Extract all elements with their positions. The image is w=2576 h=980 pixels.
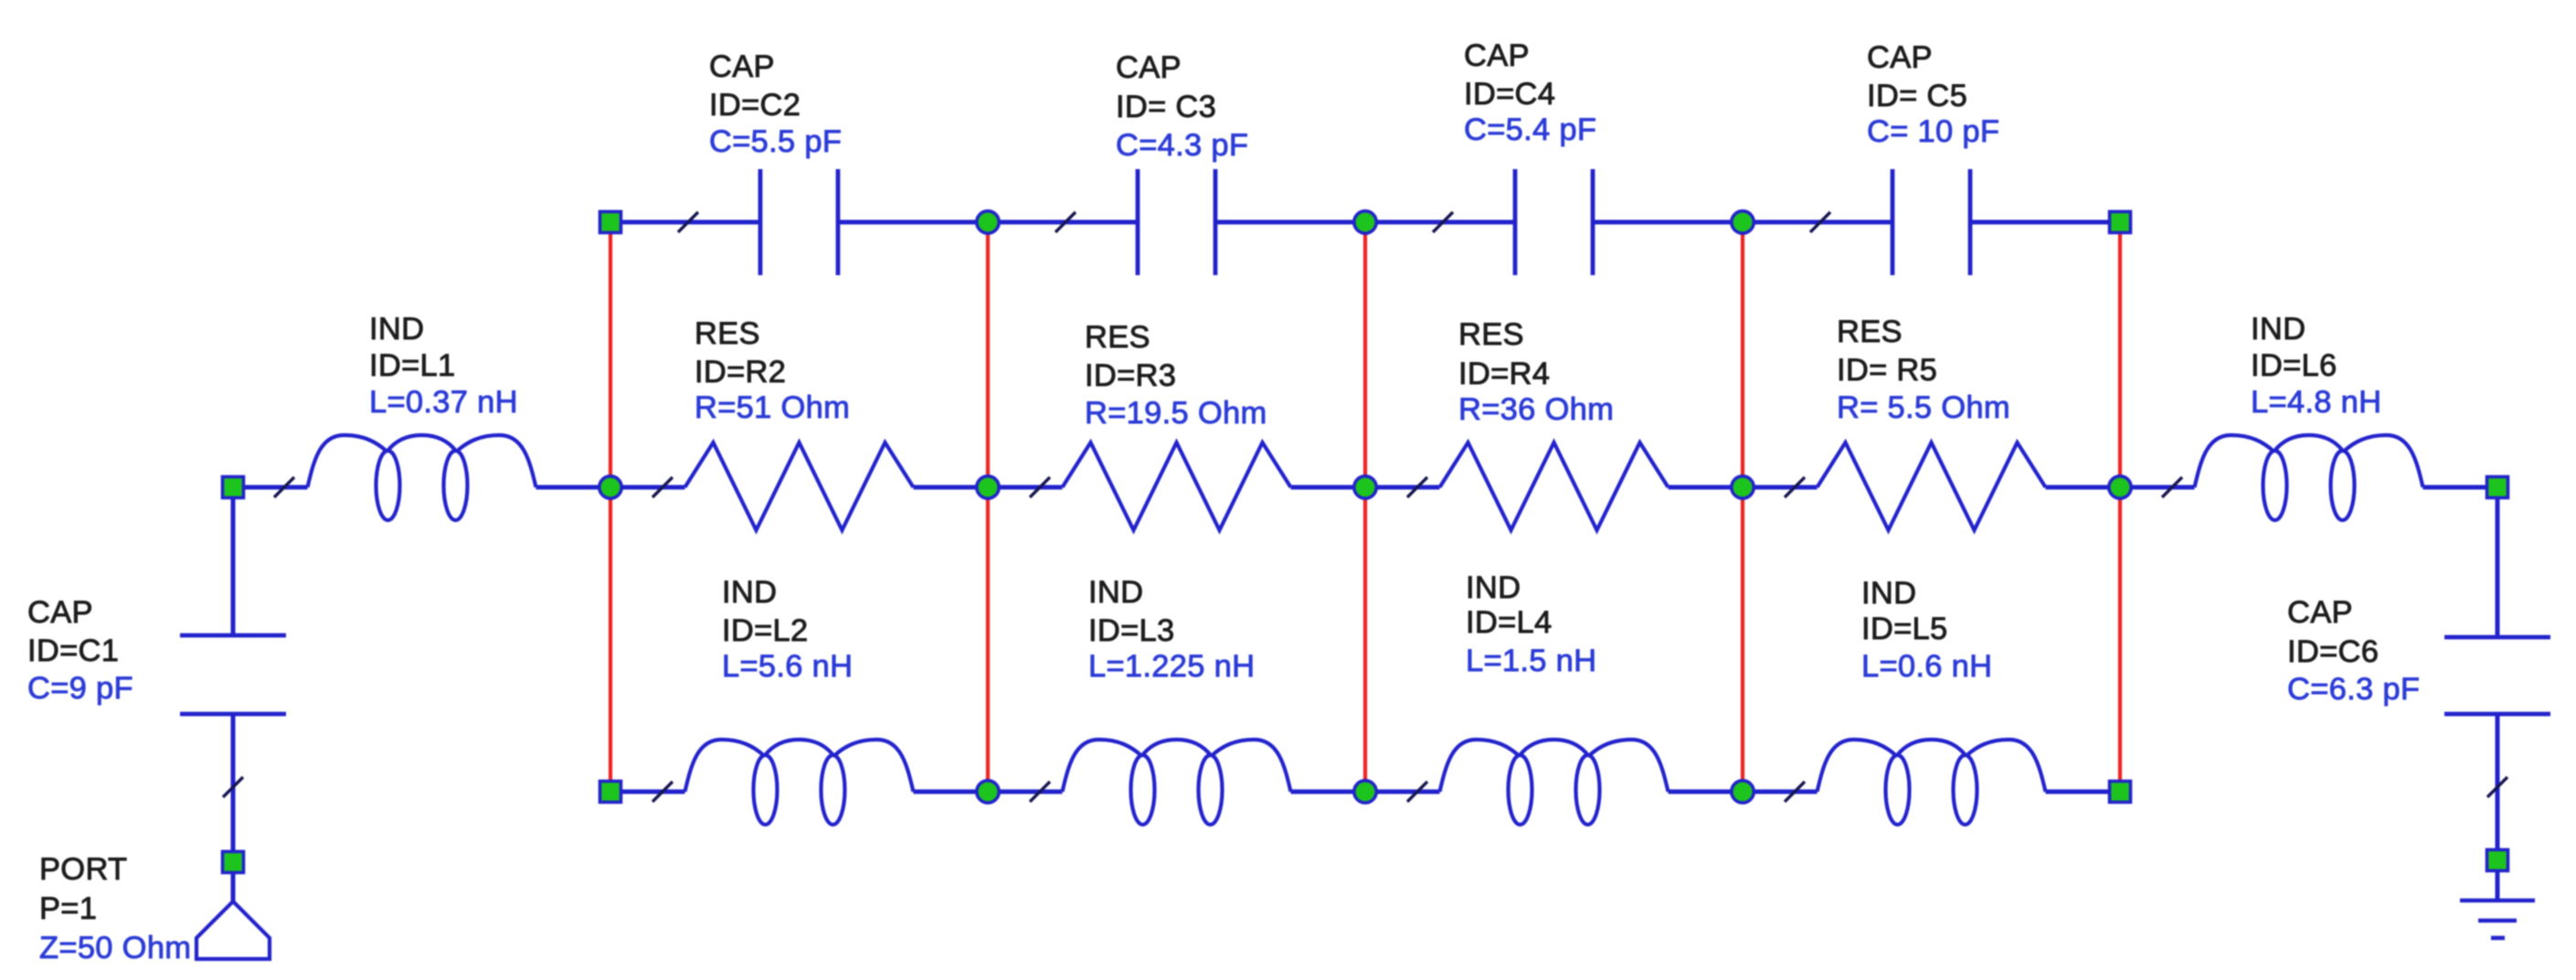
capacitor C3 [1136, 169, 1140, 275]
junction node 3 [1354, 476, 1376, 498]
wire riser column 5 (red) [2118, 222, 2122, 792]
svg-text:C= 10 pF: C= 10 pF [1867, 114, 1999, 149]
pin 1 tick L3 [1030, 782, 1050, 802]
wire riser column 1 (red) [609, 222, 612, 792]
svg-text:ID=L4: ID=L4 [1466, 605, 1553, 640]
port P1 symbol [196, 901, 270, 959]
wire left branch: C1 bottom plate to port [231, 714, 236, 901]
wire riser column 4 (red) [1741, 222, 1744, 792]
capacitor C4 [1513, 169, 1518, 275]
node T1 top-left terminal (square) [600, 212, 621, 233]
svg-text:L=1.225 nH: L=1.225 nH [1088, 649, 1255, 684]
pin 1 tick R5 [1785, 477, 1805, 497]
node port terminal (square) [223, 852, 244, 873]
svg-text:R=51 Ohm: R=51 Ohm [694, 390, 850, 425]
svg-text:ID=R3: ID=R3 [1085, 358, 1176, 393]
resistor R2 [685, 442, 914, 530]
svg-text:L=0.37 nH: L=0.37 nH [369, 385, 518, 420]
pin 1 tick L5 [1785, 782, 1805, 802]
capacitor C5 [1891, 169, 1895, 275]
wire main row: R5 to node 5 and to L6 [2046, 485, 2195, 490]
svg-text:C=5.5 pF: C=5.5 pF [709, 124, 842, 159]
wire main row: L1 to node 1 [536, 485, 685, 490]
svg-text:L=0.6 nH: L=0.6 nH [1861, 649, 1992, 684]
svg-text:ID=L3: ID=L3 [1088, 613, 1175, 648]
wire bottom row: L2 to node B2 [914, 790, 1063, 794]
svg-text:CAP: CAP [1464, 38, 1530, 73]
node B1 bottom-left terminal (square) [600, 782, 621, 803]
ground [2460, 899, 2535, 903]
svg-text:ID= R5: ID= R5 [1837, 353, 1937, 388]
svg-text:ID=L1: ID=L1 [369, 348, 456, 383]
pin 1 tick R2 [652, 477, 673, 497]
svg-text:P=1: P=1 [39, 891, 97, 926]
wire top row: node T3 to C4 pin1 and C4 pin2 to node T4 [1593, 220, 1892, 225]
svg-text:RES: RES [1085, 320, 1150, 355]
svg-text:ID=C6: ID=C6 [2287, 634, 2379, 669]
pin 1 tick L1 [274, 477, 294, 497]
wire right branch: terminal to C6 top plate [2496, 487, 2500, 637]
svg-text:ID=C4: ID=C4 [1464, 77, 1555, 112]
svg-text:ID=L2: ID=L2 [722, 613, 809, 648]
junction node 4 [1732, 476, 1754, 498]
pin 1 tick L2 [652, 782, 673, 802]
node T5 top-right terminal (square) [2110, 212, 2131, 233]
resistor R5 [1818, 442, 2046, 530]
wire riser column 3 (red) [1363, 222, 1367, 792]
svg-text:C=4.3 pF: C=4.3 pF [1116, 128, 1248, 163]
svg-text:CAP: CAP [2287, 595, 2353, 630]
svg-text:ID=R4: ID=R4 [1458, 357, 1550, 391]
pin 1 tick C4 [1433, 212, 1453, 232]
wire main row: R3 to node 3 [1291, 485, 1440, 490]
capacitor C2 [758, 169, 763, 275]
pin 1 tick C3 [1055, 212, 1076, 232]
svg-text:ID=C2: ID=C2 [709, 88, 800, 122]
svg-text:ID= C5: ID= C5 [1867, 79, 1967, 113]
inductor L3 [1063, 740, 1291, 792]
pin 1 tick C1 [223, 777, 243, 797]
svg-text:RES: RES [1458, 317, 1524, 352]
svg-text:PORT: PORT [39, 852, 127, 887]
svg-text:IND: IND [1861, 576, 1916, 611]
svg-text:R=36 Ohm: R=36 Ohm [1458, 392, 1614, 427]
wire bottom row: L5 to node B5 [2046, 790, 2121, 794]
svg-text:CAP: CAP [1867, 40, 1933, 75]
pin 1 tick R3 [1030, 477, 1050, 497]
wire riser column 2 (red) [986, 222, 990, 792]
junction node B4 [1732, 781, 1754, 803]
wire main row: R4 to node 4 [1669, 485, 1818, 490]
pin 1 tick L6 [2162, 477, 2182, 497]
wire bottom row: node B1 to L2 [610, 790, 685, 794]
svg-text:L=1.5 nH: L=1.5 nH [1466, 644, 1596, 678]
wire bottom row: L4 to node B4 [1669, 790, 1818, 794]
wire top row: node T1 to C2 pin1 [610, 220, 760, 225]
resistor R3 [1063, 442, 1291, 530]
svg-text:ID=L6: ID=L6 [2251, 348, 2337, 383]
svg-text:IND: IND [1088, 575, 1143, 610]
svg-text:ID=R2: ID=R2 [694, 355, 786, 389]
svg-text:C=9 pF: C=9 pF [27, 671, 133, 706]
svg-text:IND: IND [722, 575, 777, 610]
svg-text:C=5.4 pF: C=5.4 pF [1464, 112, 1596, 147]
inductor L1 [308, 435, 536, 487]
svg-text:Z=50 Ohm: Z=50 Ohm [39, 931, 191, 965]
svg-text:C=6.3 pF: C=6.3 pF [2287, 672, 2420, 707]
junction node 2 [977, 476, 999, 498]
wire top row: C2 pin2 to node T2 [838, 220, 1138, 225]
node main-left terminal (square) [223, 477, 244, 498]
svg-text:IND: IND [2251, 312, 2306, 346]
wire top row: C5 pin2 to node T5 [1970, 220, 2121, 225]
svg-text:ID=L5: ID=L5 [1861, 612, 1948, 646]
node ground terminal (square) [2487, 850, 2508, 871]
pin 1 tick L4 [1407, 782, 1427, 802]
svg-text:CAP: CAP [1116, 50, 1182, 85]
svg-text:RES: RES [1837, 314, 1903, 349]
pin 1 tick C2 [678, 212, 698, 232]
pin 1 tick C6 [2487, 777, 2507, 797]
capacitor C1 [180, 634, 286, 638]
svg-text:IND: IND [369, 312, 424, 346]
inductor L2 [685, 740, 914, 792]
svg-text:IND: IND [1466, 570, 1521, 605]
svg-text:ID= C3: ID= C3 [1116, 90, 1216, 124]
wire bottom row: L3 to node B3 [1291, 790, 1440, 794]
wire top row: node T2 to C3 pin1 and C3 pin2 to node T3 [1215, 220, 1515, 225]
node B5 bottom-right terminal (square) [2110, 782, 2131, 803]
junction node T3 [1354, 211, 1376, 233]
svg-text:ID=C1: ID=C1 [27, 634, 119, 668]
pin 1 tick C5 [1810, 212, 1830, 232]
inductor L6 [2195, 435, 2423, 487]
wire main row: left terminal to L1 [233, 485, 308, 490]
wire right branch: C6 bottom plate to ground [2496, 714, 2500, 900]
junction node B2 [977, 781, 999, 803]
svg-text:R= 5.5 Ohm: R= 5.5 Ohm [1837, 390, 2010, 425]
capacitor C6 [2444, 635, 2550, 640]
svg-text:CAP: CAP [27, 595, 93, 630]
junction node 5 [2109, 476, 2131, 498]
inductor L5 [1818, 740, 2046, 792]
junction node 1 [599, 476, 621, 498]
svg-text:RES: RES [694, 316, 760, 351]
svg-text:CAP: CAP [709, 49, 775, 84]
wire main row: L6 to right terminal [2423, 485, 2498, 490]
resistor R4 [1440, 442, 1669, 530]
svg-text:R=19.5 Ohm: R=19.5 Ohm [1085, 396, 1267, 431]
svg-text:L=5.6 nH: L=5.6 nH [722, 649, 853, 684]
wire main row: R2 to node 2 [914, 485, 1063, 490]
wire left branch: terminal to C1 top plate [231, 487, 236, 635]
node main-right terminal (square) [2487, 477, 2508, 498]
junction node B3 [1354, 781, 1376, 803]
pin 1 tick R4 [1407, 477, 1427, 497]
inductor L4 [1440, 740, 1669, 792]
junction node T2 [977, 211, 999, 233]
junction node T4 [1732, 211, 1754, 233]
svg-text:L=4.8 nH: L=4.8 nH [2251, 385, 2381, 420]
